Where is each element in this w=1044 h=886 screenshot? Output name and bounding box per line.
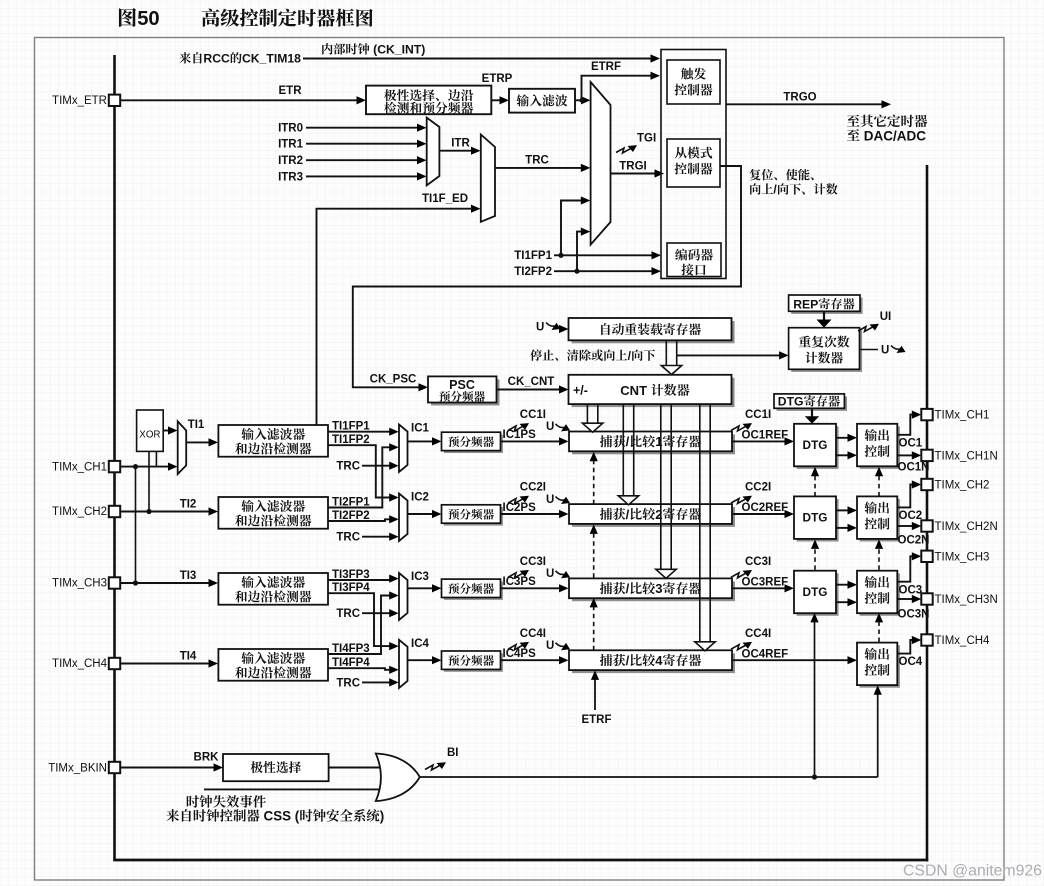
block DTG row 2 [797,499,839,542]
wire XOR to TI1 mux [163,430,169,432]
svg-text:IC2PS: IC2PS [503,502,537,514]
wire TI4FP3 jog up to IC3 mux input [328,596,391,655]
wire dashed DTG2 to DTG1 [814,474,816,497]
svg-text:TIMx_CH3: TIMx_CH3 [52,578,107,590]
label 至其它定时器 [847,115,860,127]
event U out of repetition counter [860,349,879,351]
svg-text:CK_PSC: CK_PSC [370,374,417,386]
block DTG register DTG寄存器 [777,397,847,411]
wire DTG to output control row 3 upper [836,584,849,586]
svg-text:TIMx_CH3: TIMx_CH3 [935,551,990,563]
wire IC1PS to capture register [501,440,561,442]
wire XOR input from CH2 [148,451,150,511]
block input filter edge detector row 2 输入滤波器和边沿检测器 [218,497,328,529]
svg-text:TI1: TI1 [188,419,205,431]
svg-text:IC1: IC1 [411,423,430,435]
svg-text:ITR0: ITR0 [278,123,303,135]
wire dashed DTG3 to DTG2 [814,547,816,570]
svg-text:TRGI: TRGI [619,161,646,173]
block CNT counter CNT计数器 [572,378,735,407]
svg-text:U: U [881,345,889,357]
wire DTG to output control row 2 upper [836,509,849,511]
svg-text:TIMx_CH2: TIMx_CH2 [935,480,990,492]
wire XOR input from CH1 [155,451,157,466]
svg-text:TIMx_CH1N: TIMx_CH1N [935,450,998,462]
wire ETRP [491,99,500,101]
svg-text:TRC: TRC [336,532,360,544]
svg-text:/: / [626,434,630,449]
svg-text:CC4I: CC4I [745,628,771,640]
svg-text:OC3REF: OC3REF [742,577,789,589]
wire DTG to output control row 2 lower [836,527,849,529]
svg-text:CC2I: CC2I [745,482,771,494]
svg-text:U: U [546,494,554,506]
svg-text:TIMx_BKIN: TIMx_BKIN [48,763,107,775]
wire DTG to output control row 3 lower [836,601,849,603]
svg-text:IC2: IC2 [411,492,429,504]
svg-text:DTG: DTG [803,511,828,525]
svg-text:TI1F_ED: TI1F_ED [422,193,468,205]
svg-text:CC1I: CC1I [745,409,771,421]
svg-text:OC1: OC1 [899,437,923,449]
mux TRC selector [481,135,495,222]
wire CK_INT internal clock [322,43,332,54]
block XOR [137,410,164,451]
svg-text:OC2N: OC2N [898,534,930,546]
wire auto-reload to CNT hollow arrow [665,340,667,365]
node BRK junction [812,774,817,779]
bottom bus wire [113,859,928,862]
mux TRGI trigger selector [591,82,611,245]
svg-text:/: / [626,507,630,522]
block prescaler 预分频器 row 1 [444,435,503,453]
node ETRF branch [579,98,583,102]
wire TI1FP2 jog down to IC2 mux input [328,445,391,497]
wire clock failure event input [204,788,384,790]
block 触发控制器 trigger controller [667,60,720,104]
pin TIMx_CH4 output [921,634,932,645]
svg-text:TRC: TRC [336,677,360,689]
svg-text:CK_TIM18: CK_TIM18 [242,52,301,66]
svg-text:TI2FP2: TI2FP2 [332,510,370,522]
block capture compare register 1 捕获/比较1寄存器 [572,435,735,455]
svg-text:U: U [546,421,554,433]
svg-text:CC3I: CC3I [745,556,771,568]
block input filter 输入滤波 [509,89,575,113]
svg-text:PSC: PSC [449,378,475,392]
svg-text:U: U [536,322,544,334]
svg-text:TI3FP3: TI3FP3 [332,569,370,581]
svg-text:U: U [546,640,554,652]
block 从模式控制器 slave mode controller [667,139,720,187]
pin TIMx_CH2 output [921,479,932,490]
svg-text:TRC: TRC [336,461,360,473]
wire DTG to output control row 1 upper [836,437,849,439]
svg-text:3: 3 [655,581,662,596]
svg-text:+/-: +/- [573,384,588,398]
block output control row 1 输出控制 [860,426,900,469]
block output control row 2 输出控制 [860,499,900,542]
label 来自RCC的CK_TIM18 [179,52,191,63]
block input filter edge detector row 3 输入滤波器和边沿检测器 [218,573,328,605]
mux IC1 selector [399,425,408,473]
wire TI2FP2 into IC2 mux [328,519,391,521]
svg-text:OC4REF: OC4REF [742,648,789,660]
wire ETRF to trigger mux [575,99,582,101]
block 编码器接口 encoder interface [667,243,721,277]
svg-text:TI2: TI2 [180,499,197,511]
svg-text:IC3: IC3 [411,571,429,583]
svg-text:TI1FP2: TI1FP2 [332,434,370,446]
svg-text:XOR: XOR [139,430,160,441]
wire TI1FP1 up into trigger mux [561,201,581,256]
label 复位、使能、向上/向下、计数 [750,169,761,180]
mux TI1 selector [178,421,187,474]
wire BRK to OC4 output control [877,691,879,777]
wire CNT to capture compare 4 hollow arrow [699,404,701,642]
pin TIMx_CH1N output [921,450,932,461]
pin TIMx_CH2N output [921,520,932,531]
wire TI1FP1 into IC1 mux [328,431,391,433]
svg-text:TI4: TI4 [180,651,197,663]
svg-text:2: 2 [655,507,662,522]
mux IC3 selector [399,573,408,620]
svg-text:ETRF: ETRF [581,714,611,726]
node TI2FP2 junction [574,269,579,274]
wire ETRF into CC4 [594,677,596,710]
wire dashed OC3 to OC2 [878,547,880,570]
svg-text:ETR: ETR [279,85,303,97]
svg-text:TIMx_CH4: TIMx_CH4 [52,658,108,670]
svg-text:OC2: OC2 [899,510,923,522]
svg-text:BRK: BRK [194,752,220,764]
svg-text:TGI: TGI [637,133,656,145]
svg-text:CK_CNT: CK_CNT [508,376,555,388]
wire dashed CC3 to CC2 [593,532,595,578]
svg-text:IC1PS: IC1PS [503,429,537,441]
wire TI3FP4 jog down to IC4 mux input [328,593,391,646]
svg-text:CC2I: CC2I [520,482,546,494]
svg-text:IC4PS: IC4PS [503,648,537,660]
svg-text:TIMx_CH2N: TIMx_CH2N [935,521,998,533]
block polarity selection 极性选择 [223,754,329,781]
svg-text:UI: UI [880,311,892,323]
label 时钟失效事件 [187,795,199,807]
block input filter edge detector row 1 输入滤波器和边沿检测器 [218,425,328,457]
block prescaler 预分频器 row 4 [444,653,503,671]
node TI1FP1 junction [558,253,563,258]
svg-text:TI2FP1: TI2FP1 [332,496,370,508]
wire TI2FP2 up into trigger mux [577,232,581,272]
svg-text:50: 50 [137,8,159,30]
svg-text:OC3N: OC3N [898,609,930,621]
wire IC4PS to capture register [501,659,561,661]
block DTG row 3 [797,573,839,616]
svg-text:DTG: DTG [778,395,804,409]
svg-text:TRGO: TRGO [783,92,816,104]
svg-text:IC4: IC4 [411,638,430,650]
svg-text:REP: REP [793,297,818,311]
svg-text:TRC: TRC [525,155,549,167]
svg-text:DAC/ADC: DAC/ADC [860,128,926,143]
wire DTG register to DTG1 [811,408,813,417]
svg-text:DTG: DTG [803,438,828,452]
svg-text:CC3I: CC3I [520,556,546,568]
wire polarity selection to OR gate [329,767,382,769]
wire dashed CC4 to CC3 [593,605,595,650]
right pin bus wire [926,165,929,861]
svg-text:ITR: ITR [451,138,470,150]
block auto-reload register 自动重装载寄存器 [572,321,735,343]
pin TIMx_CH1 output [921,409,932,420]
svg-text:ETRP: ETRP [482,73,513,85]
wire TIMx_CH1 to mux [120,466,169,468]
svg-text:DTG: DTG [803,585,828,599]
svg-text:TIMx_CH2: TIMx_CH2 [52,506,107,518]
block DTG row 1 [797,426,839,469]
svg-text:TIMx_CH1: TIMx_CH1 [935,410,990,422]
mux ITR selector [427,118,440,186]
title 图50 高级控制定时器框图 [119,8,136,27]
svg-text:CC1I: CC1I [520,409,546,421]
block polarity selection edge detector prescaler 极性选择、边沿检测和预分频器 [366,86,491,115]
block PSC 预分频器 prescaler [431,379,500,405]
svg-text:1: 1 [655,434,662,449]
wire IC3PS to capture register [501,587,561,589]
svg-text:CSS (: CSS ( [260,809,300,824]
svg-text:ETRF: ETRF [591,61,621,73]
block input filter edge detector row 4 输入滤波器和边沿检测器 [218,649,328,681]
pin TIMx_CH3N output [921,593,932,604]
mux IC4 selector [399,640,408,688]
wire CNT to capture compare 3 hollow arrow [660,404,662,569]
svg-text:TI3FP4: TI3FP4 [332,582,370,594]
wire dashed OC4 to OC3 [878,620,880,643]
wire dashed OC2 to OC1 [878,474,880,497]
block capture compare register 2 捕获/比较2寄存器 [572,507,735,527]
block capture compare register 4 捕获/比较4寄存器 [572,653,735,673]
svg-text:CSDN @anitem926: CSDN @anitem926 [903,862,1042,879]
wire slave mode control to clock [353,166,741,387]
svg-text:TI4FP3: TI4FP3 [332,643,370,655]
wire dashed CC2 to CC1 [593,459,595,504]
wire CNT to capture compare 1 hollow arrow [586,404,588,423]
wire TI4FP4 into IC4 mux [328,668,391,670]
svg-text:ITR1: ITR1 [278,139,304,151]
svg-text:/: / [626,653,630,668]
wire TI2FP1 jog up to IC1 mux input [328,447,391,507]
block prescaler 预分频器 row 2 [444,507,503,525]
svg-text:BI: BI [447,747,459,759]
svg-text:CC4I: CC4I [520,628,546,640]
svg-text:CNT: CNT [620,383,650,398]
svg-text:RCC: RCC [203,52,230,66]
svg-text:IC3PS: IC3PS [503,576,537,588]
block prescaler 预分频器 row 3 [444,582,503,600]
left pin bus wire [113,55,116,860]
wire update to repetition counter [677,354,781,356]
svg-text:/: / [626,581,630,596]
svg-text:(CK_INT): (CK_INT) [370,43,426,57]
svg-text:TI4FP4: TI4FP4 [332,657,370,669]
gate OR break [376,754,420,802]
label capture compare register texts [600,435,612,447]
svg-text:OC1REF: OC1REF [742,430,789,442]
svg-text:TIMx_CH3N: TIMx_CH3N [935,594,998,606]
wire BRK to DTG3 [814,619,816,778]
block capture compare register 3 捕获/比较3寄存器 [572,581,735,601]
svg-text:OC3: OC3 [899,584,923,596]
label 来自时钟控制器CSS [166,809,179,822]
svg-text:4: 4 [655,653,663,668]
svg-text:TI3: TI3 [180,570,197,582]
svg-text:OC1N: OC1N [898,462,930,474]
label 停止、清除或向上/向下 [530,349,542,361]
block REP register REP寄存器 [791,298,862,314]
svg-text:TIMx_CH4: TIMx_CH4 [935,635,991,647]
wire BI to output controls [420,776,878,778]
svg-text:TI2FP2: TI2FP2 [514,266,552,278]
block repetition counter 重复次数计数器 [791,330,862,372]
block output control row 3 输出控制 [860,573,900,616]
svg-text:TI1FP1: TI1FP1 [514,250,552,262]
block trigger controller container [661,50,726,279]
svg-text:TIMx_CH1: TIMx_CH1 [52,461,107,473]
svg-text:ITR3: ITR3 [278,172,303,184]
svg-text:OC4: OC4 [899,656,923,668]
wire DTG to output control row 1 lower [836,454,849,456]
wire XOR input from CH3 [135,467,137,583]
mux IC2 selector [399,494,408,542]
pin TIMx_CH3 output [921,551,932,562]
wire IC2PS to capture register [501,513,561,515]
svg-text:OC2REF: OC2REF [742,502,789,514]
svg-text:): ) [380,809,384,824]
svg-text:TI1FP1: TI1FP1 [332,421,370,433]
wire CNT to capture compare 2 hollow arrow [622,404,624,496]
wire TI3FP3 into IC3 mux [328,579,391,581]
svg-text:TIMx_ETR: TIMx_ETR [52,95,107,107]
wire REP to repetition counter [823,311,825,320]
svg-text:U: U [546,568,554,580]
block output control row 4 输出控制 [860,645,900,688]
svg-text:ITR2: ITR2 [278,155,303,167]
label 至DAC/ADC [847,129,860,141]
svg-text:TRC: TRC [336,608,360,620]
